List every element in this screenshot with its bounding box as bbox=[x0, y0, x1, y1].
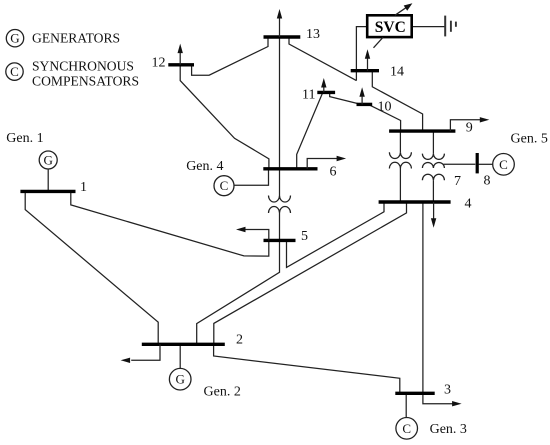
transformer 4-7-9 three-winding bbox=[422, 131, 444, 202]
transformer 4-9 bbox=[389, 131, 411, 202]
wire 13-14 bbox=[289, 37, 356, 81]
wire 12-13 bbox=[192, 37, 268, 75]
bus 4 bbox=[379, 200, 451, 203]
compensator C3 bbox=[396, 418, 418, 440]
wire 6-11 bbox=[297, 92, 323, 168]
wire node 7 to bus 8 bbox=[444, 163, 476, 165]
load arrow bus 10 bbox=[359, 87, 364, 104]
compensator C4 bbox=[214, 176, 234, 196]
generator G2 bbox=[169, 368, 191, 390]
wire 10-11 bbox=[330, 93, 358, 104]
bus 12 bbox=[168, 63, 194, 66]
transformer 5-6 bbox=[269, 169, 291, 241]
bus 6 bbox=[263, 167, 317, 170]
wire 3-4 bbox=[423, 202, 453, 404]
wire SVC to ground bbox=[412, 26, 445, 28]
svg-text:4: 4 bbox=[465, 197, 472, 212]
svg-text:GENERATORS: GENERATORS bbox=[32, 31, 120, 46]
wire SVC to bus 14 bbox=[356, 27, 367, 81]
svg-text:Gen. 4: Gen. 4 bbox=[186, 159, 223, 174]
svg-text:COMPENSATORS: COMPENSATORS bbox=[32, 74, 139, 89]
svg-text:G: G bbox=[10, 31, 19, 46]
wire 6-13 bbox=[279, 37, 281, 169]
svg-text:Gen. 3: Gen. 3 bbox=[430, 422, 467, 437]
bus 9 bbox=[389, 129, 455, 132]
load arrow bus 6 bbox=[307, 156, 346, 169]
svg-text:Gen. 5: Gen. 5 bbox=[511, 132, 548, 147]
wire 2-4 bbox=[214, 202, 407, 344]
load arrow bus 12 bbox=[178, 44, 183, 65]
SVC output arrow bbox=[395, 3, 413, 15]
legend generator symbol bbox=[6, 30, 23, 47]
wire 9-10 bbox=[368, 104, 400, 131]
wire compensator C4 lead bbox=[234, 169, 269, 186]
wire 4-5 bbox=[287, 202, 385, 267]
wire 6-12 bbox=[180, 65, 269, 169]
svg-text:1: 1 bbox=[80, 180, 87, 195]
svg-text:2: 2 bbox=[236, 333, 243, 348]
wire 2-5 bbox=[197, 240, 280, 344]
wire generator G2 lead bbox=[179, 344, 181, 368]
load arrow bus 2 bbox=[121, 344, 160, 363]
svg-text:C: C bbox=[220, 178, 229, 193]
svg-text:11: 11 bbox=[302, 87, 315, 102]
bus 13 bbox=[264, 35, 301, 38]
load arrow bus 14 bbox=[365, 49, 370, 70]
compensator C5 bbox=[493, 154, 515, 176]
wire compensator C3 lead bbox=[405, 393, 407, 417]
svg-text:Gen. 1: Gen. 1 bbox=[6, 131, 43, 146]
wire compensator C5 lead bbox=[479, 163, 493, 165]
svg-text:10: 10 bbox=[378, 99, 392, 114]
svg-text:5: 5 bbox=[301, 229, 308, 244]
svg-text:8: 8 bbox=[484, 173, 491, 188]
bus 8 bbox=[476, 153, 479, 173]
svg-text:C: C bbox=[10, 64, 19, 79]
bus 3 bbox=[395, 392, 434, 395]
svg-text:9: 9 bbox=[466, 120, 473, 135]
svg-text:C: C bbox=[402, 421, 411, 436]
svg-text:G: G bbox=[44, 152, 53, 167]
generator G1 bbox=[39, 151, 57, 169]
wire 1-5 bbox=[71, 191, 269, 256]
svg-text:SYNCHRONOUS: SYNCHRONOUS bbox=[32, 58, 134, 73]
ground bbox=[445, 16, 456, 37]
svg-text:3: 3 bbox=[444, 382, 451, 397]
SVC pointer line bbox=[374, 37, 384, 48]
svg-text:C: C bbox=[499, 157, 508, 172]
load arrow bus 13 bbox=[277, 9, 282, 37]
svg-text:13: 13 bbox=[306, 27, 320, 42]
wire 1-2 bbox=[25, 191, 158, 344]
wire 9-14 bbox=[372, 71, 422, 131]
bus 11 bbox=[317, 91, 335, 94]
svg-text:12: 12 bbox=[152, 55, 166, 70]
svg-text:G: G bbox=[176, 372, 185, 387]
legend compensator symbol bbox=[6, 63, 23, 80]
svg-text:SVC: SVC bbox=[375, 19, 406, 36]
svg-text:14: 14 bbox=[390, 64, 404, 79]
load arrow bus 4 bbox=[431, 202, 436, 228]
bus 2 bbox=[142, 343, 225, 346]
bus 10 bbox=[357, 103, 373, 106]
load arrow bus 5 bbox=[236, 227, 269, 241]
bus 5 bbox=[264, 239, 296, 242]
bus 14 bbox=[351, 69, 379, 72]
load arrow bus 11 bbox=[321, 78, 326, 92]
svg-text:6: 6 bbox=[330, 164, 337, 179]
load arrow bus 3 bbox=[452, 401, 462, 406]
wire generator G1 lead bbox=[47, 169, 49, 191]
wire 2-3 bbox=[214, 344, 400, 393]
bus 1 bbox=[20, 190, 75, 193]
svg-text:Gen. 2: Gen. 2 bbox=[204, 384, 241, 399]
svg-text:7: 7 bbox=[454, 174, 461, 189]
load arrow bus 9 bbox=[450, 117, 489, 131]
SVC unit bbox=[367, 15, 412, 37]
